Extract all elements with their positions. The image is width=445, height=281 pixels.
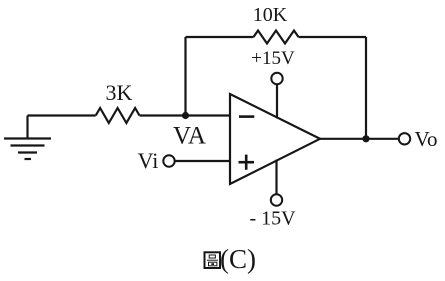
wire feedback vertical from node VA (184, 37, 186, 116)
op-amp U1 triangle (230, 94, 320, 184)
wire feedback right vertical to output (365, 37, 367, 139)
terminal Vo circle (399, 133, 410, 144)
terminal Vi circle (163, 155, 174, 166)
resistor 3K (96, 108, 140, 123)
wire +15V stub to op-amp (276, 84, 278, 118)
op-amp inverting input minus sign (239, 115, 254, 118)
svg-text:Vi: Vi (138, 148, 159, 173)
+15V supply terminal circle (271, 73, 282, 84)
op-amp non-inverting input plus sign (239, 155, 255, 170)
wire ground to resistor 3K (28, 114, 96, 116)
resistor 10K (254, 31, 299, 44)
svg-text:VA: VA (173, 123, 206, 150)
svg-text:+15V: +15V (251, 48, 295, 69)
wire -15V stub to op-amp (275, 160, 277, 195)
wire op-amp output (320, 138, 399, 140)
output junction dot (362, 135, 369, 142)
svg-text:Vo: Vo (415, 127, 438, 151)
svg-text:- 15V: - 15V (249, 208, 296, 230)
svg-text:3K: 3K (106, 80, 133, 105)
caption figure character 圖 (205, 252, 221, 268)
wire resistor 3K to op-amp inverting input (140, 114, 231, 116)
node VA junction dot (182, 112, 189, 119)
-15V supply terminal circle (271, 194, 282, 205)
svg-text:10K: 10K (253, 4, 288, 26)
ground (4, 116, 51, 160)
wire feedback top left segment (186, 36, 254, 38)
wire feedback top right segment (299, 36, 367, 38)
svg-text:(C): (C) (220, 244, 256, 274)
wire Vi to op-amp non-inverting input (175, 160, 231, 162)
